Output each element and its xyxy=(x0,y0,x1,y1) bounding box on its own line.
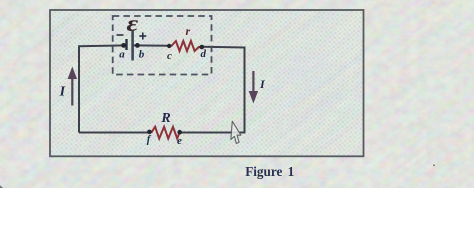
dashed battery box xyxy=(113,16,212,75)
node f xyxy=(147,130,152,135)
battery long plate (positive) xyxy=(131,31,134,61)
internal resistance r zigzag xyxy=(169,41,202,51)
load resistor R zigzag xyxy=(150,127,180,139)
svg-text:e: e xyxy=(177,135,182,147)
wire top right segment xyxy=(133,44,170,46)
node c xyxy=(167,44,171,48)
svg-text:c: c xyxy=(167,50,172,62)
scanned paper background xyxy=(0,0,474,188)
svg-text:a: a xyxy=(119,49,125,61)
svg-text:r: r xyxy=(185,24,190,38)
svg-text:R: R xyxy=(160,111,170,126)
node e xyxy=(177,130,182,135)
minus sign xyxy=(117,34,124,36)
svg-text:b: b xyxy=(139,49,145,61)
wire bottom right segment xyxy=(181,132,246,134)
plus sign xyxy=(139,35,146,37)
wire after internal resistance xyxy=(202,46,246,49)
wire bottom left segment xyxy=(79,132,150,134)
mouse cursor xyxy=(231,121,242,144)
wire right vertical xyxy=(244,48,246,133)
current arrow right (down) xyxy=(249,71,258,104)
battery short plate (negative) xyxy=(125,39,127,50)
node d xyxy=(200,45,205,50)
node b xyxy=(135,43,140,48)
svg-text:I: I xyxy=(59,85,66,100)
current arrow left (up) xyxy=(68,67,77,106)
node a xyxy=(121,43,126,48)
svg-text:Figure 1: Figure 1 xyxy=(245,164,294,179)
wire top left segment xyxy=(78,44,127,47)
wire left vertical xyxy=(78,46,80,132)
svg-text:d: d xyxy=(201,48,207,60)
